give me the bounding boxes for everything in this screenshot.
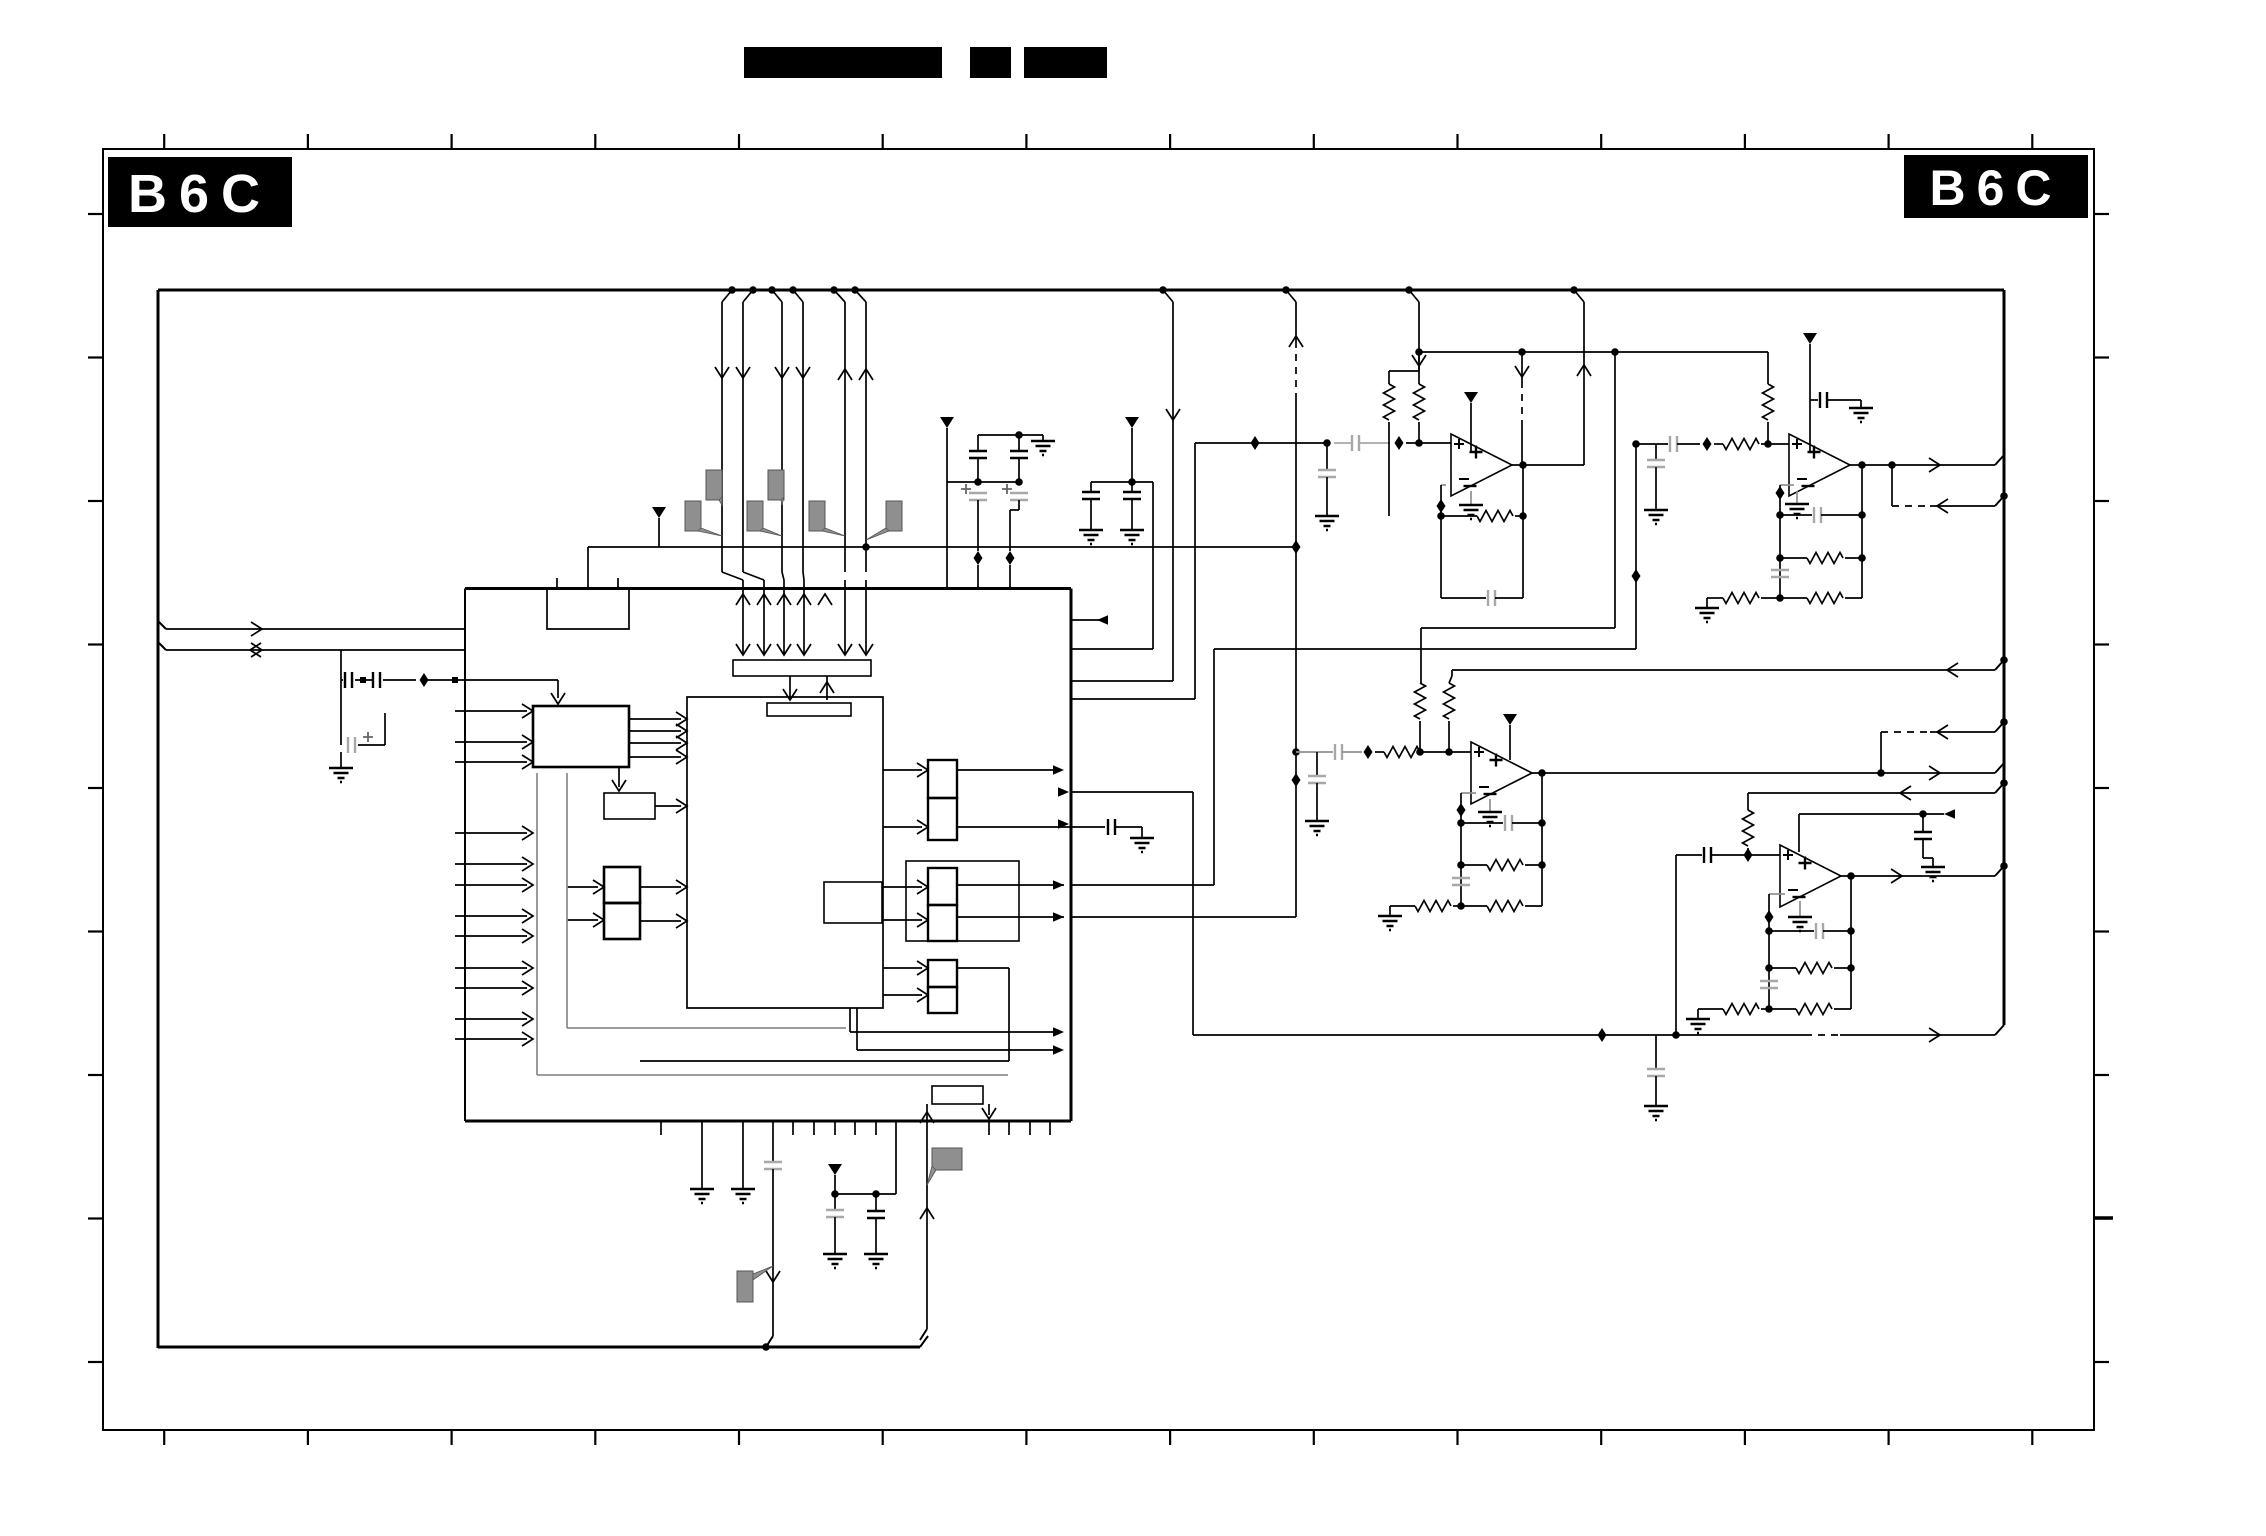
IC left edge pin rows [455, 832, 527, 834]
wire: horizontal net y547 [588, 546, 1296, 548]
resistor R1a [1418, 352, 1420, 371]
ground under op2 [1796, 491, 1798, 504]
wire net y435 [978, 434, 1019, 436]
page label B6C top-left [108, 157, 292, 227]
capacitor [1082, 492, 1100, 499]
sub-block G1 [928, 868, 957, 905]
wire x1153 [1152, 482, 1154, 649]
capacitor [1010, 451, 1028, 458]
capacitor [1108, 819, 1115, 835]
sub-block C1 [604, 867, 640, 903]
sub-block: register strip [767, 703, 851, 716]
capacitor [969, 493, 987, 500]
ground [1686, 1019, 1710, 1033]
capacitor [1308, 776, 1326, 783]
capacitor C2b to ground [1810, 399, 1818, 401]
resistor [1414, 384, 1425, 420]
resistor [1487, 860, 1523, 871]
resistor [1723, 593, 1759, 604]
capacitor [1452, 878, 1470, 885]
ground [1120, 530, 1144, 544]
resistor R4c [1769, 1008, 1796, 1010]
wire pin y792 [1071, 791, 1193, 793]
wire y1194 [835, 1193, 896, 1195]
IC bottom pin stubs [660, 1121, 662, 1135]
capacitor [1647, 1069, 1665, 1076]
sub-block F outline [906, 861, 1019, 941]
arrow [1944, 809, 1955, 819]
op3 output [1538, 769, 1546, 777]
wire net y628 [1421, 627, 1615, 629]
sub-block: core block [687, 697, 883, 1008]
IC U1 right edge [1070, 589, 1073, 1122]
inner sheet bus: bottom-left edge [158, 1346, 920, 1349]
op-amp U2A [1451, 434, 1512, 496]
wires G to IC edge (crossing F) [957, 884, 1064, 886]
wire x1636 down [1635, 444, 1637, 649]
ground [1695, 608, 1719, 622]
wire: busbar to register arrows [789, 676, 791, 698]
cap to ground [1655, 444, 1657, 460]
wire: chevron bottom of right edge [1995, 1025, 2004, 1035]
redacted title bar 3 [1024, 47, 1107, 78]
capacitor C_g [834, 1194, 836, 1210]
wire x1584 to bus [1570, 286, 1578, 294]
arrow [1053, 880, 1064, 890]
op3 input chain [1292, 748, 1300, 756]
capacitor [1488, 590, 1495, 606]
resistor [1477, 511, 1513, 522]
connector flag F7 [737, 1271, 753, 1302]
wire y649 to op2 chain [1214, 648, 1636, 650]
connector flag [685, 501, 701, 531]
capacitor [969, 451, 987, 458]
arrow [1058, 819, 1069, 829]
capacitor C1c [1441, 597, 1486, 599]
arrows D to G [882, 886, 922, 888]
resistor R1b [1418, 371, 1420, 384]
ground [1315, 516, 1339, 530]
border tick marks bottom [163, 1429, 165, 1445]
wire: chevron at end of bottom bus [920, 1336, 928, 1347]
wires core to E [883, 769, 922, 771]
resistor [1807, 593, 1843, 604]
arrows block A to core [629, 718, 681, 720]
wire x1173 from top bus [1159, 286, 1167, 294]
sub-block H1 [928, 960, 957, 987]
capacitor [1771, 570, 1789, 577]
power [828, 1164, 842, 1175]
arrow [1053, 1045, 1064, 1055]
wire: top drop x=845 [830, 286, 838, 294]
ground pins [701, 1121, 703, 1189]
outer border frame [103, 149, 2094, 1430]
polarized capacitor C_c [961, 484, 971, 494]
sub-block H2 [928, 987, 957, 1013]
border tick marks right [2093, 213, 2109, 215]
capacitor [1010, 493, 1028, 500]
op4 power wire [1798, 814, 1800, 852]
wire: arrow into block A top [557, 680, 559, 698]
arrows core to H [883, 967, 922, 969]
resistor R4b [1769, 967, 1796, 969]
capacitor C4b to ground [1922, 814, 1924, 832]
resistor R1c [1441, 515, 1477, 517]
capacitor [826, 1210, 844, 1217]
wire net y352 [1419, 351, 1768, 353]
ground [864, 1254, 888, 1268]
page label B6C top-right [1904, 155, 2088, 218]
wire net y793 [1748, 792, 1947, 794]
op1 output [1519, 461, 1527, 469]
ground [1849, 408, 1873, 422]
wires E to IC edge [957, 769, 1058, 771]
resistor [1444, 683, 1455, 719]
capacitor C3c [1461, 822, 1503, 824]
resistor R2c [1780, 597, 1807, 599]
sub-block C2 [604, 903, 640, 939]
IC U1 top edge [465, 587, 1071, 590]
arrows C to core [640, 886, 681, 888]
resistor [1415, 901, 1451, 912]
arrows into C [567, 886, 598, 888]
wire x1768 [1767, 352, 1769, 384]
capacitor [1914, 832, 1932, 839]
capacitor C2c [1780, 514, 1812, 516]
capacitor [1704, 847, 1711, 863]
redacted title bar 1 [744, 47, 942, 78]
pin x927 net with flag [926, 1104, 928, 1329]
ground [1921, 867, 1945, 881]
capacitor [345, 672, 352, 688]
capacitor C4c [1769, 930, 1814, 932]
border tick marks left [88, 213, 104, 215]
ground [1130, 838, 1154, 852]
ground [1644, 1106, 1668, 1120]
wire x1195 [1194, 443, 1196, 699]
ground [1378, 916, 1402, 930]
capacitor C5 to ground [1655, 1035, 1657, 1069]
wire pin y649 [1071, 648, 1153, 650]
sub-block B [604, 793, 655, 819]
wire: B out arrow [655, 805, 681, 807]
wire net y1035 [1193, 1034, 1805, 1036]
arrows into IC top edge [736, 594, 750, 605]
capacitor [1670, 436, 1677, 452]
wire pin y681 [1071, 680, 1173, 682]
op3 right rail [1541, 773, 1543, 906]
capacitor [764, 1162, 782, 1169]
connector flag F6 [886, 501, 902, 531]
wire net y670 [1452, 669, 1947, 671]
wire x1214 up [1213, 649, 1215, 885]
op2 aux dashed return [1891, 465, 1893, 506]
ground under op4 [1799, 901, 1801, 917]
ground under op1 [1470, 491, 1472, 505]
op3 feedback loop [1461, 792, 1476, 794]
op-amp U2C [1471, 742, 1532, 804]
sub-block G2 [928, 905, 957, 941]
power [1503, 714, 1517, 725]
ground [1788, 917, 1812, 931]
resistor R2b [1780, 557, 1807, 559]
op3 dashed return [1880, 732, 1882, 773]
capacitor [348, 737, 355, 753]
pin stubs above IC top edge [556, 578, 558, 589]
ground [1305, 821, 1329, 835]
IC U1 bottom edge [465, 1120, 1071, 1123]
resistor R3c [1461, 864, 1487, 866]
arrow [1053, 765, 1064, 775]
wire: top drop x=782 [768, 286, 776, 294]
sub-block E2 [928, 798, 957, 840]
wire stub with left arrow [1071, 619, 1103, 621]
capacitor [1352, 435, 1359, 451]
capacitor [1760, 981, 1778, 988]
power [940, 417, 954, 428]
capacitor [1318, 470, 1336, 477]
wire x1296 from top bus [1282, 286, 1290, 294]
wire pin y885 [1071, 884, 1214, 886]
resistor [1796, 1004, 1832, 1015]
power [1125, 417, 1139, 428]
inner sheet bus: left edge [157, 290, 160, 1348]
connector flag [747, 501, 763, 531]
wire loop H right [957, 967, 1009, 969]
sub-block: notch box on IC top [547, 589, 629, 629]
resistor R3d [1461, 905, 1487, 907]
power [1464, 392, 1478, 403]
svg-text:B6C: B6C [1929, 160, 2062, 216]
redacted title bar 2 [970, 47, 1011, 78]
op4 input chain [1676, 854, 1702, 856]
ground [1644, 510, 1668, 524]
wire: drop jogs to DAC bus-bar [722, 572, 743, 580]
op2 output [1858, 461, 1866, 469]
inner sheet bus: top edge [158, 289, 2004, 292]
capacitor [1820, 392, 1827, 408]
wire: top drop x=803 [789, 286, 797, 294]
capacitor C_in series [340, 650, 342, 680]
ground [1031, 441, 1055, 455]
wire: A to B arrow [618, 767, 620, 787]
wire x1419 from bus [1405, 286, 1413, 294]
op4 right rail [1850, 876, 1852, 1009]
sub-block E1 [928, 760, 957, 798]
op4 feedback loop [1769, 893, 1785, 895]
op-amp U2D [1780, 845, 1841, 907]
wire: top drop x=722 [728, 286, 736, 294]
arrow [1097, 615, 1108, 625]
resistor [1743, 810, 1754, 846]
polarized capacitor C_d [1002, 484, 1012, 494]
wire pin y917 [1071, 916, 1296, 918]
power [1803, 333, 1817, 344]
border tick marks top [163, 134, 165, 150]
capacitor [373, 672, 380, 688]
capacitor [1647, 460, 1665, 467]
ground [823, 1254, 847, 1268]
ground [731, 1189, 755, 1203]
polarized capacitor C_in2 [340, 680, 342, 745]
resistor [1384, 384, 1395, 420]
cap to ground [1316, 752, 1318, 776]
capacitor [1335, 744, 1342, 760]
ground [1459, 505, 1483, 519]
capacitor C_h [875, 1194, 877, 1211]
pin arrows into block A [455, 710, 527, 712]
wire pin y699 [1071, 698, 1195, 700]
capacitor C_f [1131, 482, 1133, 492]
gray highlighted bus path [536, 773, 538, 1075]
ground [1478, 812, 1502, 826]
wire: supply drop [946, 428, 948, 588]
resistor [1723, 1004, 1759, 1015]
wire input y629 [158, 621, 166, 629]
wire input y650 [158, 642, 166, 650]
wire x1522 dashed [1521, 352, 1523, 381]
ground [1079, 530, 1103, 544]
resistor [1763, 384, 1774, 420]
sub-block D inside core [824, 882, 882, 923]
arrow [1053, 912, 1064, 922]
cap to ground on chain [1326, 443, 1328, 470]
capacitor [1123, 492, 1141, 499]
ground [1785, 504, 1809, 518]
connector flag F8 [932, 1148, 962, 1170]
wire x1193 down to bottom bus [1192, 792, 1194, 1035]
op1 feedback loop [1441, 484, 1446, 486]
wire: arrow down to IC bottom edge [988, 1104, 990, 1115]
inner sheet bus: right edge [2003, 290, 2006, 1025]
ground under op3 [1489, 799, 1491, 812]
resistor [1807, 553, 1843, 564]
capacitor [1505, 815, 1512, 831]
op2 right rail [1861, 465, 1863, 598]
pin x773 with capacitor [772, 1121, 774, 1162]
wires to IC right edge with arrows [849, 1008, 851, 1032]
op4 output [1847, 872, 1855, 880]
resistor [1487, 901, 1523, 912]
power [652, 507, 666, 518]
IC U1 left edge [464, 589, 466, 1122]
sub-block A (decoder) [533, 706, 629, 767]
connector flag [768, 470, 784, 500]
ground [690, 1189, 714, 1203]
wire: top drop x=743 [749, 286, 757, 294]
sub-block: bottom small box [932, 1086, 983, 1104]
wire x1676 [1675, 855, 1677, 1035]
resistor [1723, 439, 1759, 450]
resistor [1384, 747, 1420, 758]
wire net y443 [1195, 442, 1327, 444]
arrow [1053, 1027, 1064, 1037]
svg-text:B6C: B6C [128, 164, 272, 224]
arrow [1058, 787, 1069, 797]
wire: top drop x=866 [851, 286, 859, 294]
capacitor [867, 1211, 885, 1218]
capacitor [1816, 923, 1823, 939]
capacitor [1814, 507, 1821, 523]
resistor [1796, 963, 1832, 974]
internal bus-bar rectangle [733, 660, 871, 676]
connector flag [706, 470, 722, 500]
wire net y482 [947, 481, 1019, 483]
op2 input chain [1632, 440, 1640, 448]
op-amp U2B [1789, 434, 1850, 496]
resistor [1415, 683, 1426, 719]
wire net y482b [1091, 481, 1153, 483]
op2 feedback loop [1780, 484, 1794, 486]
ground [329, 768, 353, 782]
connector flag [809, 501, 825, 531]
